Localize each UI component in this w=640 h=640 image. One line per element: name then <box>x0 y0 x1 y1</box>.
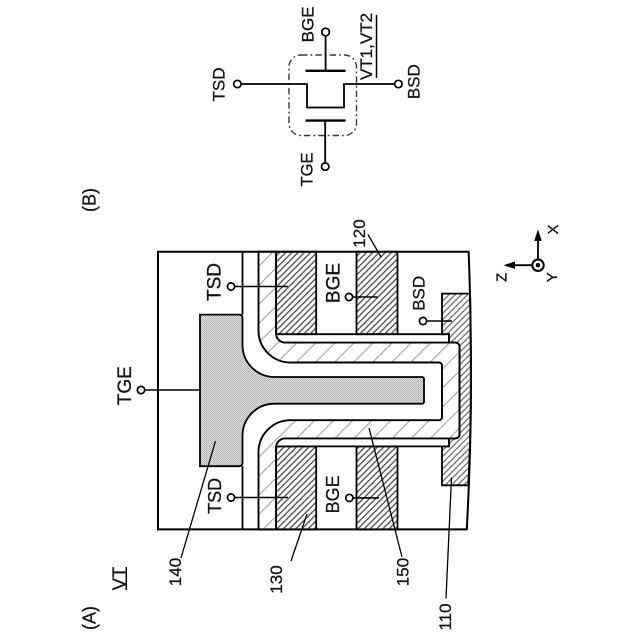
X axis arrow (up) <box>537 238 539 259</box>
svg-text:120: 120 <box>350 219 369 247</box>
T-shaped gate electrode 140 (TGE, dotted gray) <box>200 315 424 467</box>
BGE gate lead wire <box>325 37 327 71</box>
svg-text:BGE: BGE <box>324 263 345 303</box>
channel wire TSD to BSD <box>242 84 394 108</box>
top TSD electrode block <box>276 252 316 335</box>
svg-text:BGE: BGE <box>323 475 343 513</box>
bottom TSD terminal label <box>205 478 288 514</box>
figure designator VT (underlined) <box>109 567 130 591</box>
top BGE terminal label <box>324 263 378 303</box>
svg-text:TGE: TGE <box>115 366 136 405</box>
top BGE electrode block 120 <box>357 252 398 335</box>
svg-text:BGE: BGE <box>299 6 318 42</box>
svg-text:TGE: TGE <box>298 153 316 187</box>
svg-text:150: 150 <box>393 558 412 586</box>
BSD terminal label (cross-section) <box>410 276 452 325</box>
bottom BGE electrode block 130 <box>357 446 398 529</box>
top gate bar (BGE) <box>306 70 346 72</box>
thin insulating film outline, bottom <box>276 438 449 446</box>
svg-text:140: 140 <box>166 558 185 586</box>
svg-text:X: X <box>545 224 562 234</box>
svg-text:BSD: BSD <box>410 276 429 311</box>
svg-text:(A): (A) <box>79 606 99 630</box>
transistor designator VT1,VT2 (underlined) <box>357 13 377 80</box>
insulating layer boundary line (left margin), upper segment <box>242 252 244 315</box>
svg-text:(B): (B) <box>80 188 100 212</box>
svg-text:130: 130 <box>267 565 286 593</box>
svg-text:110: 110 <box>436 603 455 630</box>
reference numeral 150 <box>369 428 412 586</box>
substrate contact region 110 (hatched, right side) <box>442 294 471 486</box>
TGE gate lead wire <box>324 121 326 163</box>
reference numeral 130 <box>267 514 307 594</box>
TGE terminal circle <box>322 163 329 170</box>
reference numeral 140 <box>166 441 216 586</box>
svg-text:Y: Y <box>544 272 561 282</box>
top TSD terminal label <box>205 263 289 301</box>
dash-dot device outline box <box>289 55 357 136</box>
svg-text:VT1,VT2: VT1,VT2 <box>357 13 376 80</box>
bottom BGE terminal label <box>323 475 379 513</box>
svg-text:BSD: BSD <box>405 64 424 99</box>
bottom gate bar (TGE) <box>306 119 346 121</box>
insulating layer boundary line (left margin), lower segment <box>242 466 244 529</box>
outer substrate boundary rectangle (curved right broken edge) <box>158 252 471 530</box>
thin insulating film outline, top <box>276 334 449 342</box>
Y axis symbol (circle with dot, out of plane) <box>532 260 543 271</box>
svg-text:TSD: TSD <box>205 478 225 514</box>
BGE terminal circle <box>322 28 330 36</box>
bottom TSD electrode block <box>276 446 316 529</box>
BSD terminal circle <box>395 80 402 87</box>
svg-text:TSD: TSD <box>205 263 226 301</box>
reference numeral 120 <box>350 219 381 257</box>
TGE terminal label <box>115 366 200 405</box>
svg-text:Z: Z <box>493 273 510 282</box>
svg-text:TSD: TSD <box>210 68 229 102</box>
TSD terminal circle <box>234 80 241 87</box>
Z axis arrow (left) <box>512 264 532 266</box>
reference numeral 110 <box>436 478 455 631</box>
U-shaped channel band 150 (sparse hatch) <box>259 252 460 530</box>
